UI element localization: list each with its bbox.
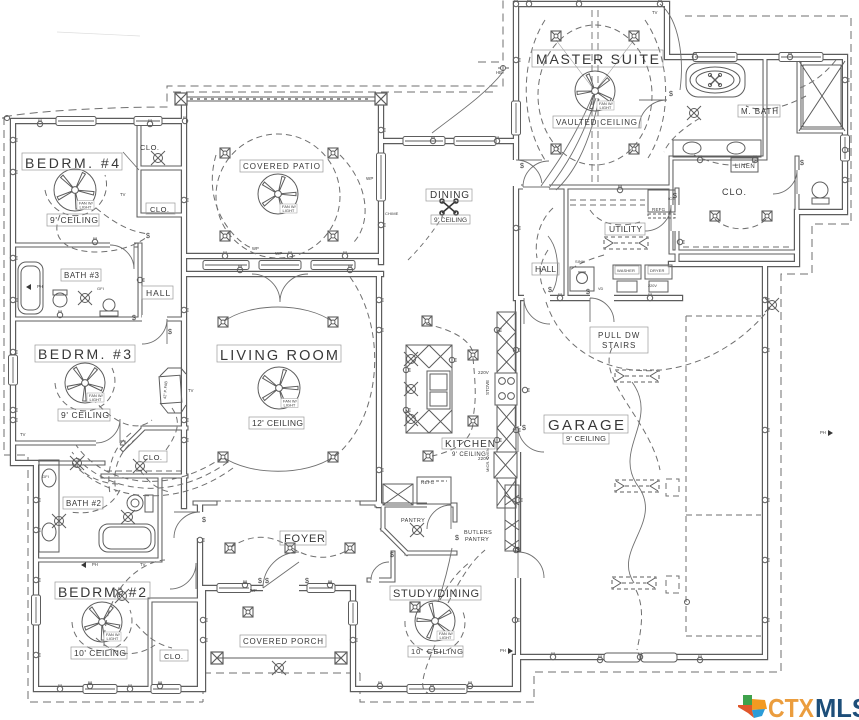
duplex outlet O71 bbox=[576, 0, 581, 7]
study dashed circle bbox=[405, 612, 465, 653]
mid closet shelf dash bbox=[106, 470, 184, 472]
window W2 bbox=[134, 117, 162, 126]
bath2 tub bbox=[99, 524, 155, 552]
svg-text:12' CEILING: 12' CEILING bbox=[252, 418, 303, 428]
label: FOYER bbox=[280, 531, 326, 545]
patio post NW bbox=[175, 93, 187, 105]
duplex outlet O55 bbox=[494, 327, 501, 332]
door D10 with swing arc bbox=[590, 294, 614, 322]
surface light SL6 bbox=[52, 514, 66, 528]
switch-leg dashed arc A19 bbox=[96, 638, 155, 654]
svg-text:CLO.: CLO. bbox=[150, 205, 170, 214]
duplex outlet O4 bbox=[10, 255, 17, 260]
duplex outlet O3 bbox=[10, 169, 17, 174]
duplex outlet O16 bbox=[242, 580, 247, 587]
duplex outlet O38 bbox=[842, 147, 849, 152]
label: BATH #3 bbox=[61, 269, 101, 281]
duplex outlet O72 bbox=[842, 77, 849, 82]
label: BEDRM #2 bbox=[55, 582, 150, 599]
can light CL20 bbox=[710, 211, 720, 221]
door D13 with swing arc bbox=[773, 170, 805, 194]
surface light SL11 bbox=[765, 298, 779, 312]
duplex outlet O66 bbox=[222, 251, 227, 258]
svg-text:LIGHT: LIGHT bbox=[600, 105, 612, 110]
label: COVERED PATIO bbox=[240, 160, 323, 172]
label: VAULTED CEILING bbox=[553, 116, 641, 128]
svg-text:LIGHT: LIGHT bbox=[440, 635, 452, 640]
surface light SL8 bbox=[272, 661, 286, 675]
surface light SL7 bbox=[410, 523, 424, 537]
garage fluorescent 1 bbox=[615, 370, 659, 382]
door D11 with swing arc bbox=[639, 100, 680, 128]
duplex outlet O44 bbox=[762, 557, 769, 562]
ceiling fan F3 (Master Suite) bbox=[575, 71, 615, 111]
duplex outlet O80 bbox=[513, 427, 520, 432]
master dashed ellipse bbox=[538, 25, 652, 165]
door D6 with swing arc bbox=[252, 274, 308, 302]
svg-text:PANTRY: PANTRY bbox=[465, 537, 489, 543]
can light CL5 bbox=[551, 31, 561, 41]
svg-text:STUDY/DINING: STUDY/DINING bbox=[393, 588, 479, 600]
wiring curve WC2 bbox=[438, 548, 452, 602]
vault hip lines bbox=[556, 40, 634, 91]
svg-text:TV: TV bbox=[188, 388, 194, 393]
duplex outlet O13 bbox=[157, 681, 162, 688]
svg-text:9' CEILING: 9' CEILING bbox=[434, 217, 467, 224]
wiring curve WC7 bbox=[432, 72, 503, 133]
switch-leg dashed arc A39 bbox=[109, 433, 131, 494]
svg-text:$: $ bbox=[132, 315, 136, 322]
svg-text:UTILITY: UTILITY bbox=[609, 224, 642, 234]
svg-text:GFI: GFI bbox=[97, 286, 104, 291]
svg-text:$: $ bbox=[669, 91, 673, 98]
duplex outlet O34 bbox=[513, 57, 520, 62]
bed4 closet door leaf bbox=[123, 152, 139, 170]
washer bbox=[613, 265, 641, 279]
window W13 bbox=[377, 153, 386, 201]
duplex outlet O77 bbox=[637, 652, 642, 659]
linen box bbox=[731, 158, 758, 172]
CTXMLS logo bbox=[738, 693, 859, 720]
duplex outlet O50 bbox=[522, 387, 529, 392]
window W6 bbox=[151, 685, 181, 694]
bath3 toilet bbox=[53, 293, 67, 307]
door D5 with swing arc bbox=[174, 512, 205, 538]
duplex outlet O74 bbox=[762, 347, 769, 352]
switch-leg dashed arc A28 bbox=[590, 210, 640, 225]
svg-text:SINK: SINK bbox=[575, 259, 585, 264]
switch-leg dashed arc A30 bbox=[536, 208, 553, 258]
duplex outlet O76 bbox=[762, 617, 769, 622]
svg-text:220V: 220V bbox=[478, 456, 489, 461]
svg-text:PH: PH bbox=[500, 648, 506, 653]
label: BATH #2 bbox=[63, 497, 103, 509]
bed4 dashed circle bbox=[45, 175, 107, 216]
window W20 bbox=[512, 101, 521, 135]
duplex outlet O21 bbox=[512, 617, 519, 622]
door D3 with swing arc bbox=[96, 419, 120, 447]
svg-text:WP: WP bbox=[250, 588, 257, 593]
duplex outlet O18 bbox=[350, 637, 357, 642]
switch-leg dashed arc A18 bbox=[292, 548, 348, 557]
svg-text:M. BATH: M. BATH bbox=[741, 107, 778, 116]
fireplace bbox=[159, 375, 182, 403]
duplex outlet O41 bbox=[677, 239, 684, 244]
door D9 with swing arc bbox=[523, 161, 549, 192]
switch-leg dashed arc A5 bbox=[333, 277, 375, 458]
switch-leg dashed arc A20 bbox=[104, 560, 165, 646]
svg-text:CLO.: CLO. bbox=[722, 187, 747, 197]
can light CL2 bbox=[328, 148, 338, 158]
switch-leg dashed arc A10 bbox=[526, 20, 545, 160]
can light CL12 bbox=[328, 452, 338, 462]
duplex outlet O22 bbox=[430, 136, 435, 143]
label: BEDRM #4 bbox=[22, 153, 122, 170]
can light CL22 bbox=[243, 607, 253, 617]
svg-text:DINING: DINING bbox=[430, 190, 469, 201]
svg-text:PH: PH bbox=[820, 430, 826, 435]
svg-text:220V: 220V bbox=[478, 370, 489, 375]
duplex outlet O11 bbox=[33, 652, 40, 657]
duplex outlet O30 bbox=[376, 327, 383, 332]
switch-leg dashed arc A31 bbox=[746, 96, 806, 109]
duplex outlet O33 bbox=[657, 0, 662, 7]
svg-text:10' CEILING: 10' CEILING bbox=[411, 647, 463, 656]
switch-leg dashed arc A29 bbox=[540, 250, 548, 294]
door D7 with swing arc bbox=[512, 160, 542, 186]
m.bath vanity sinks bbox=[673, 140, 761, 157]
duplex outlet O63 bbox=[127, 684, 132, 691]
can light CL14 bbox=[285, 543, 295, 553]
window W11 bbox=[403, 137, 445, 146]
label: 10 CEILING b2 bbox=[71, 647, 127, 659]
door D14 with swing arc bbox=[263, 552, 299, 593]
can light CL19 bbox=[423, 451, 433, 461]
switch-leg dashed arc A15 bbox=[546, 302, 770, 371]
svg-text:$: $ bbox=[455, 535, 459, 542]
label: 12 CEILING bbox=[249, 417, 304, 429]
duplex outlet O64 bbox=[200, 617, 207, 622]
texas icon bbox=[738, 695, 767, 718]
porch post E bbox=[335, 652, 347, 664]
wiring curve WC3 bbox=[223, 307, 333, 322]
duplex outlet O68 bbox=[378, 127, 385, 132]
kitchen fridge bbox=[417, 477, 451, 504]
label: GARAGE bbox=[544, 415, 628, 433]
switch-leg dashed arc A25 bbox=[568, 255, 604, 272]
svg-text:TV: TV bbox=[140, 562, 146, 567]
svg-text:BATH #2: BATH #2 bbox=[66, 499, 102, 508]
garage future-space dashed area bbox=[106, 200, 790, 636]
svg-text:HALL: HALL bbox=[146, 288, 171, 298]
utility sink bbox=[570, 267, 594, 291]
window W3 bbox=[9, 355, 18, 385]
window W7 bbox=[217, 584, 251, 593]
duplex outlet O31 bbox=[376, 467, 383, 472]
duplex outlet O45 bbox=[597, 655, 602, 662]
window W10 bbox=[407, 685, 467, 694]
duplex outlet O14 bbox=[117, 587, 122, 594]
duplex outlet O47 bbox=[557, 293, 562, 300]
svg-text:$: $ bbox=[800, 160, 804, 167]
svg-text:CTX: CTX bbox=[768, 693, 815, 720]
can light CL3 bbox=[220, 231, 230, 241]
duplex outlet O49 bbox=[617, 185, 622, 192]
can light CL21 bbox=[762, 211, 772, 221]
duplex outlet O42 bbox=[762, 297, 769, 302]
duplex outlet O56 bbox=[494, 437, 501, 442]
duplex outlet O43 bbox=[762, 427, 769, 432]
duplex outlet O78 bbox=[550, 652, 555, 659]
ceiling fan F6 (Bedroom 2) bbox=[82, 602, 122, 642]
duplex outlet O7 bbox=[92, 237, 97, 244]
duplex outlet O46 bbox=[697, 655, 702, 662]
master closet shelf dash bbox=[683, 246, 790, 248]
window W17 bbox=[693, 53, 737, 62]
kitchen island bbox=[406, 345, 452, 433]
svg-text:BUTLERS: BUTLERS bbox=[464, 530, 492, 536]
duplex outlet O29 bbox=[197, 537, 204, 542]
svg-text:WP: WP bbox=[275, 251, 282, 256]
window W9 bbox=[349, 601, 358, 625]
svg-text:LINEN: LINEN bbox=[735, 164, 755, 170]
svg-text:MLS: MLS bbox=[815, 693, 859, 720]
duplex outlet O37 bbox=[787, 52, 792, 59]
bath3 tub bbox=[18, 262, 43, 314]
switch-leg dashed arc A7 bbox=[72, 452, 228, 488]
bath2 vanity bbox=[39, 460, 59, 552]
svg-text:$: $ bbox=[202, 517, 206, 524]
svg-text:STOVE: STOVE bbox=[485, 380, 490, 395]
label: UTILITY bbox=[605, 223, 645, 235]
switch-leg dashed arc A32 bbox=[664, 118, 700, 152]
svg-text:PH: PH bbox=[92, 562, 98, 567]
patio beam bbox=[187, 97, 375, 102]
duplex outlet O32 bbox=[526, 0, 531, 7]
door D2 with swing arc bbox=[110, 241, 134, 269]
svg-text:$: $ bbox=[516, 547, 520, 554]
duplex outlet O25 bbox=[237, 265, 242, 272]
duplex outlet O1 bbox=[37, 119, 42, 126]
bath3 sink bbox=[103, 299, 115, 311]
surface light SL4 bbox=[78, 291, 92, 305]
duplex outlet O9 bbox=[33, 497, 40, 502]
surface light SL3 bbox=[121, 510, 135, 524]
duplex outlet O84 bbox=[181, 417, 188, 422]
kitchen right counter bbox=[497, 312, 516, 508]
wiring curve WC1 bbox=[628, 382, 645, 583]
can light CL23 bbox=[410, 602, 420, 612]
label: KITCHEN bbox=[442, 438, 495, 449]
master conduit curves bbox=[541, 95, 599, 190]
label: LIVING ROOM bbox=[217, 345, 341, 362]
duplex outlet O6 bbox=[10, 417, 17, 422]
switch-leg dashed arc A12 bbox=[426, 324, 473, 352]
svg-text:DRYER: DRYER bbox=[650, 268, 664, 273]
ceiling fan F2 (Covered Patio) bbox=[258, 174, 298, 214]
svg-text:LIGHT: LIGHT bbox=[284, 403, 296, 408]
can light CL11 bbox=[218, 452, 228, 462]
can light CL1 bbox=[220, 148, 230, 158]
switch-leg dashed arc A26 bbox=[694, 155, 760, 165]
duplex outlet O53 bbox=[403, 407, 410, 412]
surface light SL10 bbox=[70, 456, 84, 470]
duplex outlet O40 bbox=[752, 155, 757, 162]
duplex outlet O20 bbox=[467, 681, 472, 688]
label: COVERED PORCH bbox=[240, 635, 326, 647]
switch-leg dashed arc A9 bbox=[92, 398, 152, 426]
stove bbox=[495, 373, 517, 405]
svg-text:REFG: REFG bbox=[652, 207, 666, 212]
utility shelf dash bbox=[570, 200, 645, 205]
room label: MASTER SUITE bbox=[532, 50, 663, 67]
porch south beam bbox=[217, 657, 341, 659]
window W4 bbox=[32, 595, 41, 625]
svg-text:BEDRM. #2: BEDRM. #2 bbox=[58, 584, 146, 600]
ceiling fan F5 (Living Room) bbox=[258, 367, 300, 409]
hose bib HB bbox=[2, 66, 690, 605]
surface light SL12 bbox=[404, 352, 418, 366]
can light CL8 bbox=[629, 144, 639, 154]
duplex outlet O23 bbox=[494, 136, 499, 143]
switch-leg dashed arc A3 bbox=[212, 155, 252, 248]
switch-leg dashed arc A4 bbox=[340, 155, 365, 244]
can light CL4 bbox=[328, 231, 338, 241]
svg-text:9' CEILING: 9' CEILING bbox=[61, 410, 109, 420]
svg-text:STAIRS: STAIRS bbox=[602, 341, 636, 350]
faint scan line bbox=[57, 32, 140, 36]
switch-leg dashed arc A21 bbox=[423, 645, 435, 693]
patio dashed circle bbox=[216, 134, 340, 258]
switch-leg dashed arc A35 bbox=[77, 466, 118, 484]
duplex outlet O67 bbox=[342, 251, 347, 258]
svg-text:COVERED PATIO: COVERED PATIO bbox=[243, 162, 320, 171]
dining pendant line bbox=[408, 215, 443, 260]
ceiling fan F1 (Bedroom 4) bbox=[54, 169, 96, 211]
can light CL9 bbox=[218, 317, 228, 327]
door D8 with swing arc bbox=[524, 294, 550, 324]
duplex outlet O2 bbox=[147, 119, 152, 126]
door D1 with swing arc bbox=[142, 315, 167, 344]
duplex outlet O15 bbox=[200, 637, 207, 642]
svg-text:FOYER: FOYER bbox=[284, 533, 325, 545]
switch-leg dashed arc A40 bbox=[140, 470, 170, 492]
door D15 with swing arc bbox=[371, 562, 389, 584]
door D18 with swing arc bbox=[514, 426, 544, 452]
svg-text:CLO.: CLO. bbox=[143, 453, 163, 462]
duplex outlet O61 bbox=[33, 527, 40, 532]
window W5 bbox=[83, 685, 117, 694]
duplex outlet O69 bbox=[429, 684, 434, 691]
duplex outlet O82 bbox=[376, 297, 383, 302]
can light CL10 bbox=[328, 317, 338, 327]
svg-text:LIGHT: LIGHT bbox=[90, 397, 102, 402]
label: 9 CEILING b4 bbox=[47, 214, 99, 226]
svg-text:$: $ bbox=[258, 578, 262, 585]
svg-text:TV: TV bbox=[120, 192, 126, 197]
window W8 bbox=[307, 584, 335, 593]
bed2 dashed circle bbox=[72, 610, 132, 651]
window W18 bbox=[779, 53, 823, 62]
svg-text:$: $ bbox=[265, 578, 269, 585]
duplex outlet O65 bbox=[287, 251, 292, 258]
can light CL17 bbox=[468, 350, 478, 360]
svg-text:LIGHT: LIGHT bbox=[80, 205, 92, 210]
can light CL7 bbox=[551, 144, 561, 154]
duplex outlet O75 bbox=[762, 497, 769, 502]
duplex outlet O51 bbox=[515, 497, 522, 502]
window W16 bbox=[311, 261, 355, 270]
utility fluorescent bbox=[604, 237, 648, 249]
svg-text:PH: PH bbox=[37, 284, 43, 289]
duplex outlet O28 bbox=[181, 437, 188, 442]
svg-text:$: $ bbox=[520, 163, 524, 170]
duplex outlet O54 bbox=[449, 357, 456, 362]
label: DINING bbox=[426, 189, 472, 201]
switch-leg dashed arc A14 bbox=[432, 424, 473, 456]
window W19 bbox=[841, 135, 850, 161]
svg-text:PULL DW: PULL DW bbox=[598, 331, 640, 340]
svg-text:9' CEILING: 9' CEILING bbox=[566, 434, 606, 443]
bed3 dashed circle bbox=[55, 368, 115, 411]
svg-text:LIGHT: LIGHT bbox=[107, 636, 119, 641]
label: 9 CEILING dining bbox=[431, 215, 470, 224]
surface light SL2 bbox=[133, 459, 147, 473]
duplex outlet O83 bbox=[181, 197, 188, 202]
dining chandelier bbox=[440, 199, 458, 215]
wiring curve WC6 bbox=[548, 236, 558, 292]
label: PULL DW STAIRS bbox=[590, 327, 648, 353]
svg-text:220V: 220V bbox=[648, 284, 657, 288]
garage door opener dashed boxes bbox=[666, 479, 679, 496]
duplex outlet O60 bbox=[10, 407, 17, 412]
svg-text:$: $ bbox=[548, 287, 552, 294]
svg-text:WP: WP bbox=[366, 176, 373, 181]
duplex outlet O81 bbox=[513, 547, 520, 552]
living/foyer ceiling break dashed bbox=[215, 500, 362, 502]
hall ceiling break dashed bbox=[183, 463, 185, 506]
svg-text:WP: WP bbox=[252, 246, 259, 251]
duplex outlet O12 bbox=[87, 681, 92, 688]
switch-leg dashed arc A2 bbox=[57, 215, 148, 252]
can light CL18 bbox=[468, 416, 478, 426]
duplex outlet O39 bbox=[697, 155, 702, 162]
svg-text:$: $ bbox=[586, 289, 590, 296]
svg-text:HB: HB bbox=[496, 70, 502, 75]
kitchen sw cabinet bbox=[383, 484, 413, 505]
svg-text:$: $ bbox=[522, 425, 526, 432]
svg-text:$: $ bbox=[146, 233, 150, 240]
duplex outlet O36 bbox=[692, 52, 697, 59]
surface light SL14 bbox=[404, 412, 418, 426]
porch post W bbox=[211, 652, 223, 664]
duplex outlet O10 bbox=[33, 577, 40, 582]
switch-leg dashed arc A23 bbox=[448, 550, 485, 603]
svg-text:TV: TV bbox=[20, 432, 26, 437]
switch-leg dashed arc A27 bbox=[800, 60, 836, 88]
window W12 bbox=[454, 137, 496, 146]
can light CL13 bbox=[225, 543, 235, 553]
svg-text:$: $ bbox=[390, 552, 394, 559]
ceiling fan F4 (Bedroom 3) bbox=[65, 363, 105, 403]
duplex outlet O27 bbox=[181, 307, 188, 312]
label: DRYER bbox=[648, 266, 669, 274]
duplex outlet O70 bbox=[513, 0, 518, 7]
switch-leg dashed arc A1 bbox=[96, 208, 148, 234]
svg-text:TV: TV bbox=[652, 10, 658, 15]
can light CL6 bbox=[629, 31, 639, 41]
switch-leg dashed arc A37 bbox=[166, 408, 177, 450]
